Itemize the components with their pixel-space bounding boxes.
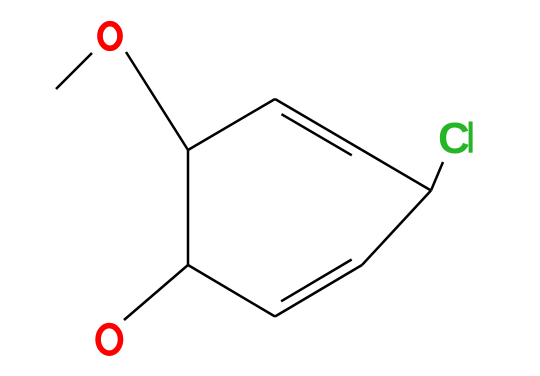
bond O-C(ring A)	[126, 52, 188, 150]
bond CH3-O (methyl stub)	[56, 53, 92, 89]
bond ring A-F (left vertical edge)	[187, 150, 190, 265]
bond ring B-C (upper right edge)	[275, 99, 362, 150]
bond O-C(ring F)	[124, 265, 188, 320]
bond ring D=E inner double line	[281, 260, 352, 302]
bond ring E-F (lower left edge)	[188, 265, 275, 317]
atom O bottom	[98, 326, 120, 354]
svg-text:C: C	[438, 114, 470, 163]
bond ring A-B (upper left edge)	[188, 99, 275, 150]
bond ring D-E (lower right edge)	[275, 265, 362, 317]
atom O top (methoxy oxygen)	[100, 24, 120, 49]
bond ring C-V (upper far-right edge)	[362, 150, 431, 191]
bond V-Cl	[431, 162, 443, 191]
bond ring B=C inner double line	[282, 114, 352, 155]
atom Cl label letter l	[469, 122, 473, 153]
bond ring V-D (lower far-right edge)	[362, 191, 431, 266]
